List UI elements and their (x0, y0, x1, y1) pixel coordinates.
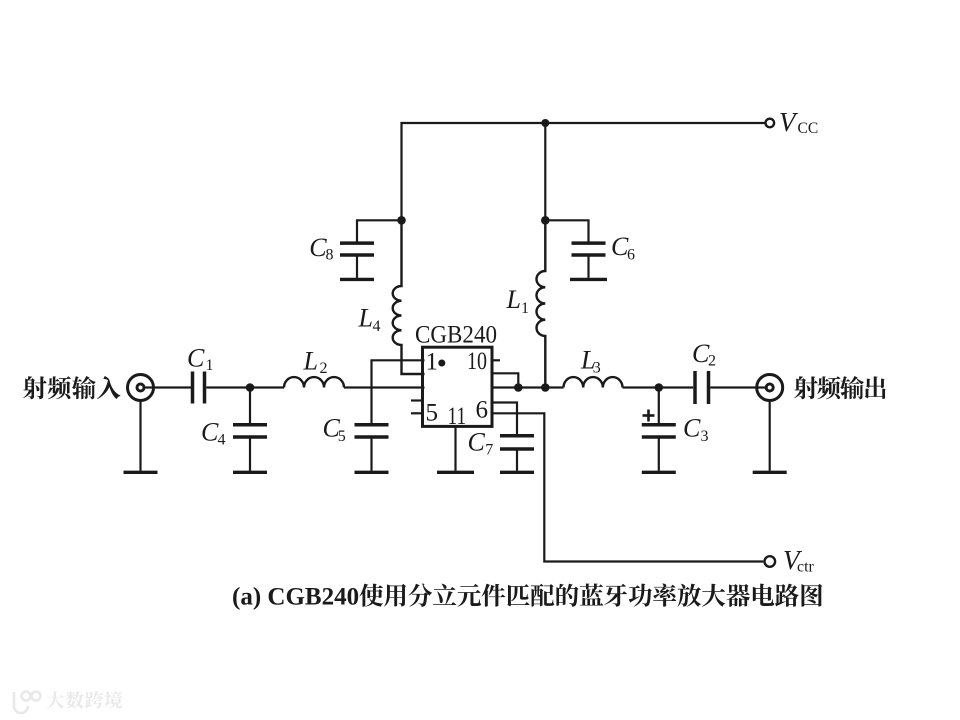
watermark text (47, 691, 65, 708)
inductor L2 (284, 377, 344, 387)
ground C5 (355, 471, 389, 474)
ground input (124, 471, 158, 474)
op-amp U1 CGB240 box (423, 347, 493, 426)
svg-text:6: 6 (476, 397, 489, 424)
wire C1 to L2 (206, 386, 284, 388)
wire to C8 (357, 220, 402, 241)
svg-text:2: 2 (320, 360, 328, 377)
svg-text:5: 5 (338, 428, 346, 445)
ground C7 (500, 471, 534, 474)
node L4 junction (397, 216, 406, 225)
svg-text:C: C (201, 418, 219, 447)
RF output connector (757, 375, 783, 401)
wire C2 to output (710, 386, 765, 388)
caption chinese (359, 584, 383, 607)
svg-text:ctr: ctr (797, 559, 815, 576)
svg-text:CC: CC (798, 120, 819, 137)
capacitor C6 (572, 241, 606, 245)
pin 5 stub b (411, 412, 423, 414)
ground C4 (233, 471, 267, 474)
capacitor C8 (340, 241, 374, 245)
wire C4 (249, 388, 251, 424)
wire output connector ground (769, 401, 771, 471)
wire C5 riser and pin1 stub (372, 360, 425, 423)
node main-line junction L1 (541, 383, 550, 392)
capacitor C5 (355, 423, 389, 427)
capacitor C1 (191, 372, 195, 404)
label RF input (23, 376, 47, 399)
ground pin11 (437, 471, 474, 474)
svg-text:V: V (779, 107, 799, 137)
svg-text:CGB240: CGB240 (415, 322, 497, 349)
svg-text:1: 1 (426, 349, 439, 376)
polarity plus C3 (643, 414, 655, 417)
svg-text:1: 1 (206, 357, 214, 374)
pin 11 ground stub (454, 426, 456, 470)
label RF output (794, 376, 818, 399)
wire to C6 (545, 220, 588, 241)
wire IC output (491, 386, 564, 388)
svg-text:2: 2 (708, 353, 716, 370)
inductor L3 (564, 377, 623, 387)
capacitor C7 (500, 434, 534, 438)
svg-text:C: C (468, 428, 486, 457)
watermark logo (14, 692, 41, 714)
ground C8 (340, 278, 374, 281)
svg-text:(a) CGB240: (a) CGB240 (232, 584, 359, 611)
inductor L1 (536, 220, 545, 387)
wire C3 (658, 388, 660, 424)
ground output (753, 471, 787, 474)
wire pin to C7 (491, 403, 517, 435)
wire Vcc riser to L1 (544, 123, 546, 220)
pin 5 stub a (411, 399, 423, 401)
terminal Vcc (766, 119, 775, 128)
node L1 junction (541, 216, 550, 225)
node C3 junction (655, 383, 664, 392)
svg-text:5: 5 (426, 400, 439, 427)
capacitor C2 (693, 371, 697, 404)
node Vcc-rail junction (541, 119, 549, 127)
pin 1 dot (438, 360, 445, 367)
wire Vcc rail (402, 123, 766, 220)
inductor L4 (393, 220, 425, 374)
ground C6 (570, 278, 607, 281)
svg-text:L: L (358, 303, 373, 332)
svg-text:8: 8 (326, 247, 334, 264)
pin 10 stub (491, 359, 500, 361)
svg-text:7: 7 (485, 442, 493, 459)
svg-text:3: 3 (701, 428, 709, 445)
svg-text:1: 1 (521, 300, 529, 317)
svg-text:C: C (187, 344, 205, 373)
capacitor C3 (642, 423, 676, 427)
svg-text:4: 4 (373, 318, 381, 335)
terminal Vctr (765, 556, 776, 567)
capacitor C4 (233, 423, 267, 427)
RF input connector (128, 375, 154, 401)
ground C3 (642, 471, 676, 474)
wire input to C1 (145, 386, 191, 388)
wire pin 6 to Vctr (491, 413, 763, 561)
svg-text:C: C (683, 413, 701, 442)
svg-text:4: 4 (218, 432, 226, 449)
svg-text:11: 11 (448, 403, 467, 430)
svg-text:L: L (303, 347, 318, 376)
node main-line junction A (514, 383, 523, 392)
wire pin to main line (491, 373, 518, 387)
node C4 junction (246, 383, 255, 392)
wire L2 to IC (344, 386, 425, 388)
svg-text:3: 3 (593, 360, 601, 377)
wire L3 to C2 (623, 386, 694, 388)
svg-text:10: 10 (467, 348, 487, 375)
wire input connector ground (139, 401, 141, 471)
svg-text:L: L (506, 285, 521, 314)
svg-text:6: 6 (627, 247, 635, 264)
